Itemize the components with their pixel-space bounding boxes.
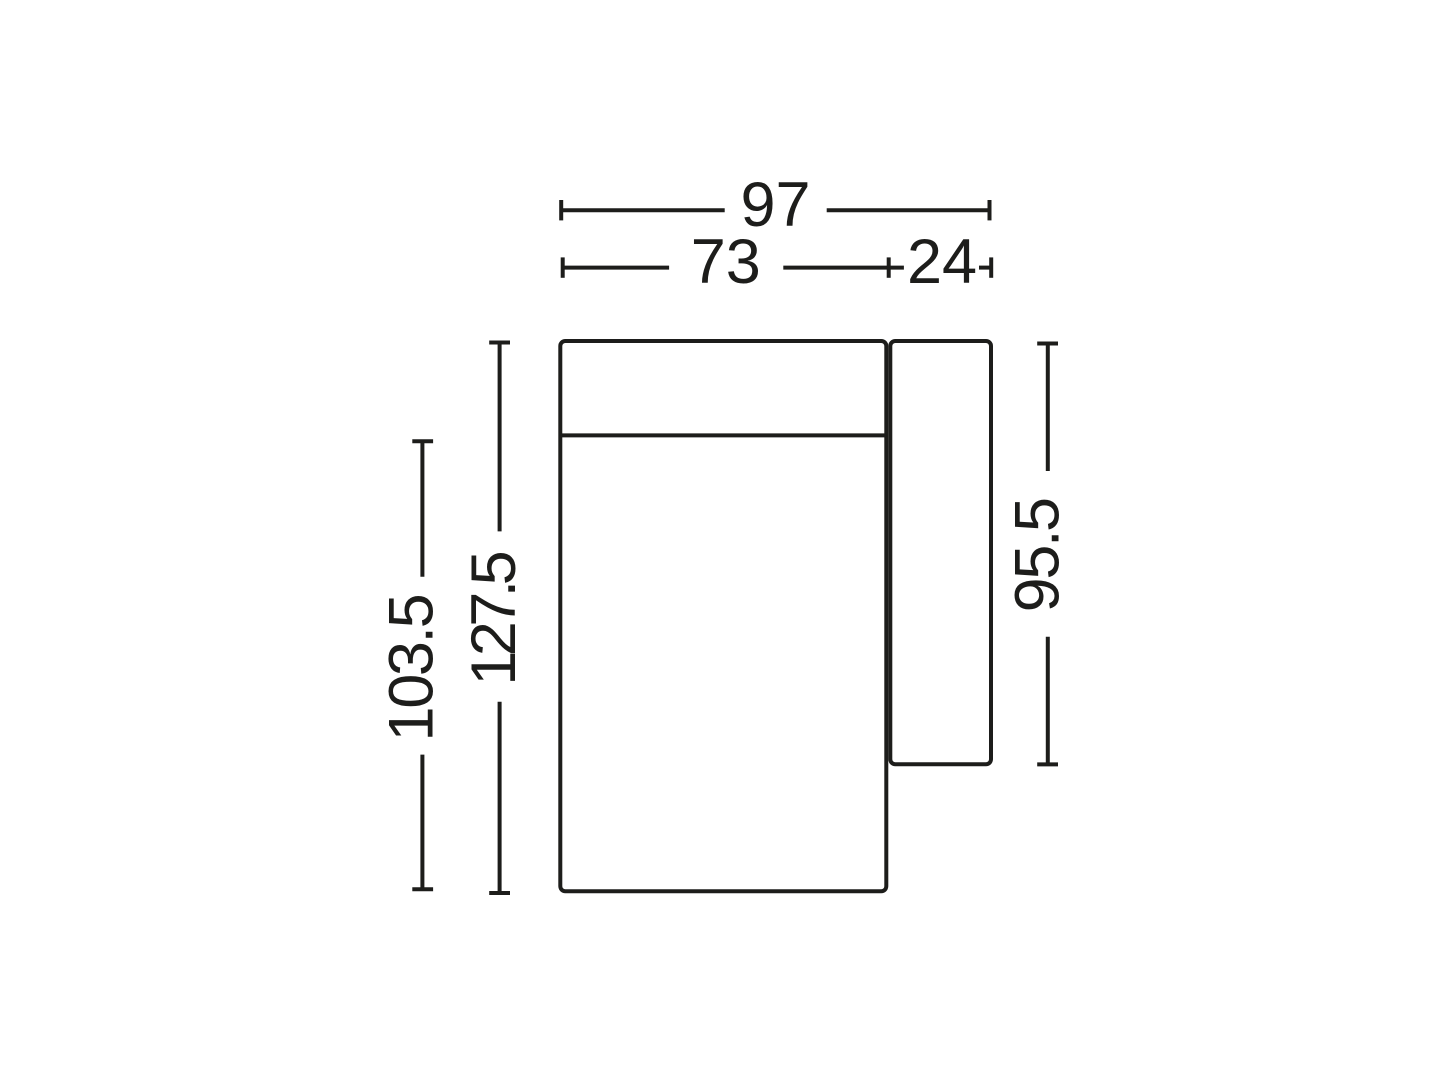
svg-text:127.5: 127.5 [459,552,529,685]
svg-text:103.5: 103.5 [377,595,447,741]
svg-text:95.5: 95.5 [1002,499,1072,612]
svg-text:73: 73 [691,227,761,297]
svg-text:24: 24 [907,227,977,297]
